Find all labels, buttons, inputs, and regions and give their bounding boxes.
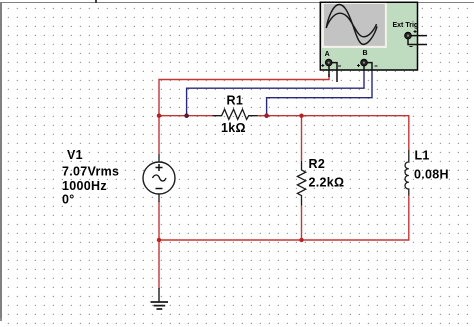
junction node: V1 bottom / ground (157, 238, 161, 242)
wire: blue scope B- to R1 right node (267, 70, 372, 116)
oscilloscope waveform channel A (326, 5, 377, 45)
oscilloscope ext trig minus mark (410, 46, 413, 48)
oscilloscope screen (324, 4, 385, 46)
source V1 circle (143, 162, 175, 194)
oscilloscope screen frame (322, 2, 387, 48)
junction node: R2 top (299, 114, 303, 118)
wire: red R2 top branch (301, 116, 303, 161)
left edge nub (0, 318, 2, 321)
oscilloscope body border (320, 2, 417, 70)
oscilloscope terminal B (361, 59, 368, 66)
oscilloscope terminal A (325, 59, 332, 66)
source V1 bottom lead (158, 194, 160, 202)
svg-text:1000Hz: 1000Hz (62, 179, 107, 193)
resistor R1 body (213, 109, 258, 119)
resistor R2 body (297, 161, 305, 206)
toolbar tick (95, 0, 97, 3)
junction node: blue B- tap on middle wire (264, 113, 269, 118)
oscilloscope A plus mark (321, 64, 324, 67)
ground symbol (151, 302, 169, 309)
svg-text:2.2kΩ: 2.2kΩ (309, 176, 345, 190)
oscilloscope ext trig terminal (405, 32, 412, 39)
oscilloscope XSC1 body (320, 2, 417, 70)
wire: red R2 bottom branch (301, 206, 303, 241)
junction node: blue B+ tap on middle wire (184, 113, 189, 118)
svg-text:1kΩ: 1kΩ (221, 121, 246, 135)
wire: blue scope B+ to R1 left node (187, 70, 364, 116)
oscilloscope A minus mark (338, 65, 341, 67)
wire: red V1 vertical upper (158, 116, 160, 154)
oscilloscope waveform channel B (326, 13, 376, 37)
wire: red V1 bottom to ground node (158, 201, 160, 289)
source V1 minus mark (156, 188, 163, 190)
svg-text:L1: L1 (415, 149, 430, 163)
oscilloscope B plus mark (357, 64, 360, 67)
svg-text:7.07Vrms: 7.07Vrms (62, 165, 119, 179)
junction node: V1 top / middle wire (157, 114, 161, 118)
junction node: R2 bottom (299, 238, 303, 242)
inductor L1 body (405, 150, 409, 196)
ground lead (158, 288, 160, 302)
oscilloscope channel A pin stubs (329, 63, 337, 82)
toolbar separator line (0, 2, 474, 3)
source V1 sine mark (153, 175, 167, 181)
svg-text:R1: R1 (227, 94, 244, 108)
left window edge (0, 2, 2, 318)
wire: red middle net V1 junction to R1 left lead (159, 115, 213, 117)
source V1 top lead (158, 154, 160, 162)
svg-text:B: B (363, 50, 368, 57)
svg-text:0.08H: 0.08H (414, 168, 449, 182)
svg-text:A: A (325, 51, 330, 58)
oscilloscope ext trig plus mark (414, 30, 417, 33)
oscilloscope channel B pin stubs (364, 63, 372, 70)
svg-text:0°: 0° (62, 193, 75, 207)
svg-text:R2: R2 (309, 157, 326, 171)
wire: red middle net R1 right lead to L1 top corner (257, 116, 409, 150)
wire: red bottom net (159, 196, 409, 241)
oscilloscope B minus mark (375, 65, 378, 67)
source V1 plus mark (156, 164, 163, 171)
wire: red top net from V1 top corner to scope A+ (159, 74, 329, 116)
svg-text:Ext Trig: Ext Trig (393, 22, 419, 29)
svg-text:V1: V1 (67, 148, 83, 162)
oscilloscope ext trig pin stubs (408, 36, 427, 45)
